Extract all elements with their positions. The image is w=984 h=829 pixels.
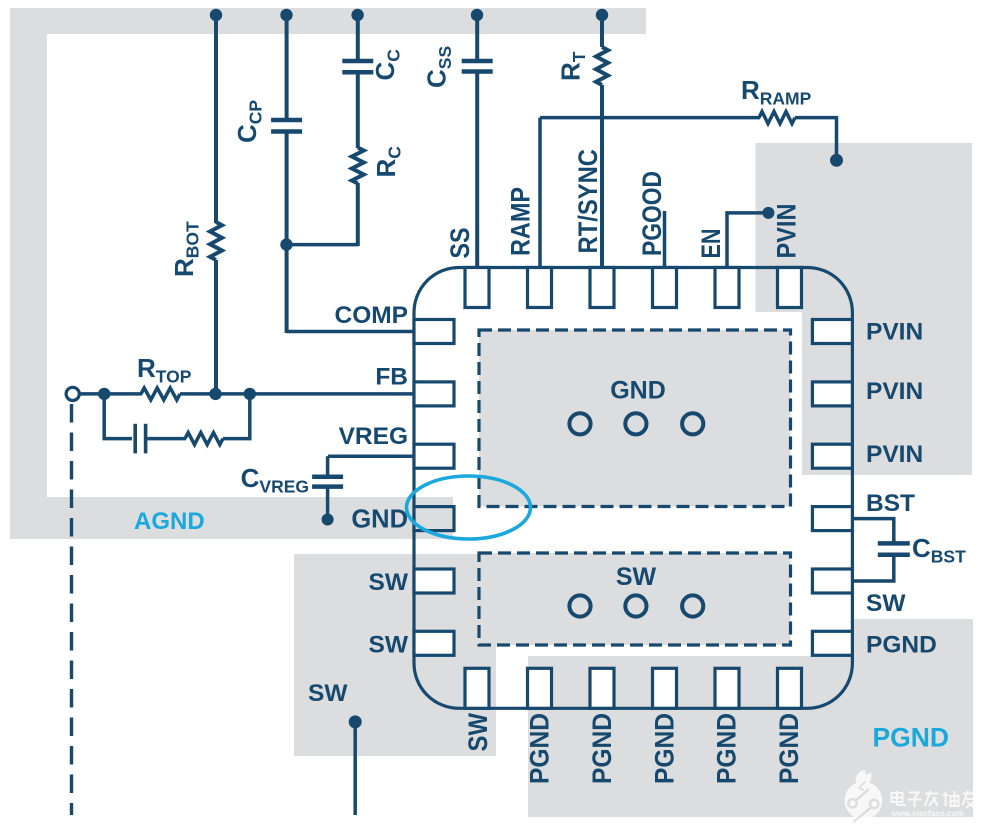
pin BST (right 4) [812, 507, 852, 531]
resistor RT [596, 47, 608, 85]
svg-text:PVIN: PVIN [866, 319, 923, 346]
pin PGND (right 6) [812, 631, 852, 655]
svg-text:PGND: PGND [873, 723, 950, 753]
svg-text:SS: SS [445, 228, 475, 259]
GND pad via 2 [625, 413, 646, 434]
watermark elecfans logo [845, 770, 976, 823]
pin COMP (left 1) [414, 320, 454, 344]
node dot on AGND bus (CSS) [471, 9, 483, 21]
svg-text:PGND: PGND [774, 713, 804, 784]
node dot on AGND bus (RBOT) [210, 9, 222, 21]
resistor RRAMP [759, 112, 795, 124]
node dot FB-A [98, 388, 110, 400]
svg-text:PGND: PGND [587, 713, 617, 784]
wire CBST to SW pin [852, 556, 893, 581]
wire RT to RT/SYNC pin [600, 85, 604, 268]
resistor RBOT [210, 222, 222, 260]
pin SS (top 1) [465, 268, 489, 308]
GND pad via 1 [569, 413, 590, 434]
SW pad via 1 [569, 595, 590, 616]
pin PGND (bottom 3) [590, 668, 614, 708]
node dot FB-C [244, 388, 256, 400]
pin SW (left 5) [414, 569, 454, 593]
svg-text:PGOOD: PGOOD [637, 171, 667, 256]
capacitor CCP [271, 118, 302, 123]
pin EN (top 5) [715, 268, 739, 308]
svg-text:EN: EN [696, 229, 726, 259]
wire CC upper [356, 15, 360, 60]
node dot on AGND bus (CC) [351, 9, 363, 21]
wire junction to RC [287, 243, 358, 247]
wire EN [727, 213, 766, 268]
svg-text:PVIN: PVIN [772, 204, 802, 259]
SW pad via 2 [625, 595, 646, 616]
IC package outline U1 [414, 268, 852, 709]
capacitor CBST [878, 541, 910, 546]
svg-text:GND: GND [610, 377, 666, 405]
wire RAMP vertical [538, 118, 542, 268]
wire RBOT upper [214, 15, 218, 223]
wire RTOP to FB pin [180, 392, 415, 396]
wire VREG to CVREG [326, 456, 330, 475]
node dot EN-PVIN [762, 207, 774, 219]
node COMP junction [280, 238, 292, 250]
pin GND (left 4) [414, 507, 454, 531]
pin PGOOD (top 4) [653, 268, 677, 308]
wire PGOOD stub [663, 211, 667, 268]
wire CVREG to AGND [326, 485, 330, 519]
pin FB (left 2) [414, 382, 454, 406]
wire CSS to SS pin [475, 72, 479, 268]
wire CCP upper [285, 15, 289, 119]
pin PVIN (top 6) [778, 268, 802, 308]
resistor RC [352, 148, 364, 184]
dashed wire to VOUT [70, 404, 73, 815]
svg-text:FB: FB [375, 364, 408, 391]
SW pad via 3 [682, 595, 703, 616]
wire CCP lower [285, 132, 289, 245]
pin SW (left 6) [414, 631, 454, 655]
svg-text:SW: SW [616, 563, 657, 591]
GND exposed pad (dashed) [479, 330, 791, 507]
wire VREG pin [328, 454, 415, 458]
svg-text:www.elecfans.com: www.elecfans.com [890, 809, 964, 818]
svg-text:PVIN: PVIN [866, 441, 923, 468]
svg-text:SW: SW [866, 590, 906, 617]
highlight ellipse (GND pin) [407, 476, 531, 539]
pin PGND (bottom 2) [528, 668, 552, 708]
SW exposed pad (dashed) [479, 553, 791, 645]
svg-text:PGND: PGND [712, 713, 742, 784]
svg-text:SW: SW [369, 569, 409, 596]
svg-text:RT/SYNC: RT/SYNC [573, 149, 603, 254]
wire RT upper [600, 15, 604, 47]
terminal VOUT (open circle) [66, 387, 79, 400]
node dot FB-B [209, 388, 221, 400]
resistor RTOP [141, 388, 180, 400]
pin SW (bottom 1) [465, 668, 489, 708]
capacitor CVREG [312, 474, 343, 479]
PVIN copper region (gray) [756, 143, 973, 475]
wire feedforward right [223, 394, 250, 439]
svg-text:AGND: AGND [134, 508, 205, 535]
svg-text:BST: BST [866, 490, 915, 517]
pin SW (right 5) [812, 569, 852, 593]
node dot SW plane [349, 715, 362, 728]
resistor RFF [185, 433, 223, 445]
capacitor CSS [462, 59, 493, 64]
wire to COMP pin [287, 330, 416, 334]
svg-text:SW: SW [369, 631, 409, 658]
svg-text:PGND: PGND [525, 713, 555, 784]
wire CC-RC [356, 73, 360, 148]
wire feedforward left [104, 394, 132, 439]
capacitor CFF [133, 424, 137, 454]
node dot AGND plane [322, 514, 334, 526]
wire SW plane stub [353, 722, 357, 815]
pin PGND (bottom 4) [653, 668, 677, 708]
svg-text:VREG: VREG [339, 423, 408, 450]
PGND copper region (gray) [528, 619, 973, 817]
AGND copper region (gray) [10, 8, 646, 539]
wire RRAMP to PVIN plane [795, 118, 837, 161]
SW copper region (gray) [294, 554, 496, 756]
svg-text:RAMP: RAMP [506, 187, 536, 256]
svg-text:PGND: PGND [866, 632, 937, 659]
wire CSS upper [475, 15, 479, 60]
svg-text:PVIN: PVIN [866, 378, 923, 405]
wire RC lower [356, 183, 360, 246]
svg-text:COMP: COMP [335, 302, 409, 329]
wire RBOT lower [214, 260, 218, 394]
GND pad via 3 [682, 413, 703, 434]
wire VOUT to RTOP [79, 392, 142, 396]
node dot PVIN plane (RRAMP) [830, 154, 843, 167]
wire to COMP vertical [285, 245, 289, 333]
wire RAMP horizontal [540, 116, 760, 120]
wire CFF to RFF [147, 437, 186, 441]
pin PVIN (right 3) [812, 444, 852, 468]
node dot on AGND bus (RT) [596, 9, 608, 21]
pin RAMP (top 2) [528, 268, 552, 308]
capacitor CC [342, 59, 373, 64]
pin VREG (left 3) [414, 444, 454, 468]
pin PGND (bottom 5) [715, 668, 739, 708]
pin PVIN (right 2) [812, 382, 852, 406]
node dot on AGND bus (CCP) [280, 9, 292, 21]
pin RT/SYNC (top 3) [590, 268, 614, 308]
svg-text:SW: SW [308, 680, 348, 707]
wire BST pin [852, 519, 893, 542]
svg-text:PGND: PGND [649, 713, 679, 784]
svg-text:SW: SW [463, 713, 493, 752]
pin PGND (bottom 6) [778, 668, 802, 708]
pin PVIN (right 1) [812, 320, 852, 344]
svg-text:GND: GND [351, 506, 408, 534]
